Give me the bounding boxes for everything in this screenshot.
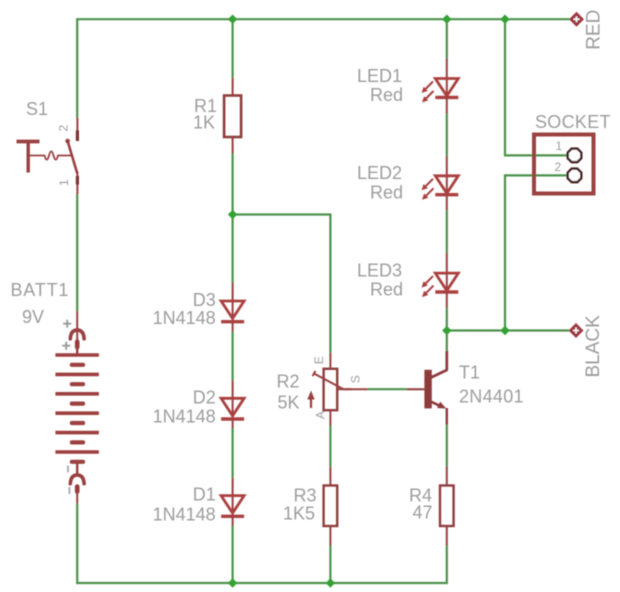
transistor T1 collector	[431, 351, 447, 378]
svg-text:1N4148: 1N4148	[153, 308, 216, 328]
battery BATT1 bottom pin	[76, 490, 78, 504]
svg-text:2N4401: 2N4401	[459, 387, 524, 407]
wire top rail from switch to RED terminal	[77, 19, 569, 117]
wire D1 to bottom rail	[232, 526, 234, 583]
resistor R1	[232, 78, 234, 96]
svg-text:SOCKET: SOCKET	[535, 112, 611, 132]
node junction bottom R3	[326, 578, 335, 587]
svg-text:1K5: 1K5	[283, 504, 315, 524]
LED2	[446, 156, 448, 195]
socket J1 box	[534, 135, 594, 194]
wire D2 to D1	[232, 429, 234, 479]
node junction top socket drop	[500, 15, 509, 24]
svg-text:LED3: LED3	[357, 261, 402, 281]
battery BATT1 plus marks	[63, 320, 71, 328]
node junction black rail at LED3	[442, 326, 451, 335]
svg-text:1N4148: 1N4148	[153, 406, 216, 426]
battery BATT1 minus marks	[67, 466, 69, 473]
node junction mid diode/pot	[228, 210, 237, 219]
diode D3	[232, 283, 234, 322]
wire top rail to socket pin 1	[505, 19, 567, 155]
svg-text:1N4148: 1N4148	[153, 505, 216, 525]
svg-text:2: 2	[555, 160, 562, 174]
svg-text:BATT1: BATT1	[11, 280, 70, 300]
socket pad 2	[568, 169, 582, 183]
switch S1 pin 2	[76, 118, 78, 142]
potentiometer R2	[329, 353, 331, 369]
socket pad 1	[568, 149, 582, 163]
node junction black rail at socket drop	[500, 326, 509, 335]
potentiometer R2 wiper pin	[338, 388, 368, 390]
svg-text:R2: R2	[277, 372, 300, 392]
wire left rail switch to battery	[76, 195, 78, 312]
transistor T1 base pin	[407, 388, 424, 390]
potentiometer R2 wiper	[314, 374, 344, 390]
wire emitter to R4	[446, 425, 448, 467]
svg-text:D1: D1	[193, 485, 216, 505]
wire LED2 to LED3	[446, 211, 448, 254]
node junction top R1	[228, 15, 237, 24]
svg-text:Red: Red	[370, 280, 403, 300]
LED3	[446, 253, 448, 292]
svg-text:5K: 5K	[278, 393, 300, 413]
svg-text:1K: 1K	[193, 113, 215, 133]
svg-text:R3: R3	[294, 486, 317, 506]
resistor R3	[329, 467, 331, 486]
svg-text:2: 2	[57, 125, 71, 132]
potentiometer R2 adjust arrow	[310, 396, 312, 408]
battery BATT1 top pin	[76, 311, 78, 341]
svg-text:RED: RED	[584, 10, 605, 50]
wire R1 top	[232, 19, 234, 78]
battery BATT1 cell plates	[55, 355, 99, 452]
transistor T1 emitter	[431, 402, 440, 406]
wire pot wiper to transistor base	[368, 388, 408, 390]
wire LED3 to black node	[446, 308, 448, 351]
svg-text:E: E	[312, 356, 326, 364]
svg-text:1: 1	[57, 179, 71, 186]
resistor R4	[446, 467, 448, 486]
diode D2	[232, 381, 234, 419]
svg-text:9V: 9V	[22, 307, 44, 327]
wire battery to bottom rail to R4	[77, 504, 447, 584]
svg-text:Red: Red	[370, 182, 403, 202]
LED1 light arrows	[425, 82, 433, 90]
svg-text:T1: T1	[459, 363, 480, 383]
svg-text:S1: S1	[26, 99, 48, 119]
wire pot R2 to R3	[329, 426, 331, 468]
svg-text:A: A	[314, 411, 328, 419]
svg-text:47: 47	[413, 503, 433, 523]
switch S1 actuator	[17, 140, 40, 144]
svg-text:D3: D3	[193, 290, 216, 310]
svg-text:1: 1	[556, 139, 563, 153]
wire R3 to bottom rail	[329, 546, 331, 584]
node junction top LED chain	[442, 15, 451, 24]
diode D1	[232, 478, 234, 516]
wire socket pin 2 to black node	[505, 175, 567, 330]
svg-text:S: S	[349, 375, 363, 383]
LED1	[446, 59, 448, 98]
svg-text:LED1: LED1	[357, 66, 402, 86]
node junction bottom diode chain	[228, 578, 237, 587]
wire D3 to D2	[232, 332, 234, 381]
BLACK terminal diamond	[569, 323, 584, 338]
wire black rail to BLACK terminal	[447, 329, 569, 331]
RED terminal diamond	[569, 12, 584, 27]
transistor T1 base bar	[424, 370, 431, 409]
wire top rail to LED1	[446, 19, 448, 58]
LED2 light arrows	[425, 179, 433, 187]
svg-text:BLACK: BLACK	[583, 315, 604, 378]
svg-text:LED2: LED2	[357, 163, 402, 183]
LED3 light arrows	[425, 276, 433, 284]
switch S1 lever	[65, 139, 70, 144]
svg-text:D2: D2	[193, 388, 216, 408]
wire R1 bottom to D3	[232, 154, 234, 283]
wire LED1 to LED2	[446, 114, 448, 157]
switch S1 pin 1	[76, 172, 78, 195]
battery BATT1 bottom clip	[76, 462, 78, 476]
battery BATT1 top clip	[70, 330, 84, 339]
wire mid junction to pot R2	[233, 215, 331, 354]
svg-text:Red: Red	[370, 85, 403, 105]
